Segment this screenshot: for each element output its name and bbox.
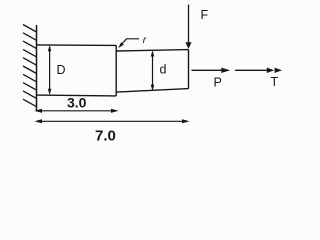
torque T arrow (double head rightward) xyxy=(235,68,282,73)
wall hatching xyxy=(23,25,37,107)
large shaft section (diameter D) outline xyxy=(37,45,117,96)
fillet leader line xyxy=(118,39,139,48)
wall (fixed support) vertical line xyxy=(36,25,38,112)
svg-text:T: T xyxy=(271,75,279,89)
svg-text:r: r xyxy=(143,34,147,46)
dimension D double arrow xyxy=(48,45,52,94)
dimension line 3.0 xyxy=(35,109,119,113)
svg-text:d: d xyxy=(160,63,167,77)
svg-text:7.0: 7.0 xyxy=(95,127,116,144)
svg-text:P: P xyxy=(214,76,222,90)
force F arrow (downward) xyxy=(185,5,191,49)
svg-text:D: D xyxy=(57,63,66,77)
dimension line 7.0 xyxy=(35,119,190,123)
svg-text:3.0: 3.0 xyxy=(67,94,87,110)
force P arrow (rightward) xyxy=(192,68,231,73)
svg-text:F: F xyxy=(201,8,209,22)
dimension d double arrow xyxy=(151,51,155,91)
small shaft section (diameter d) outline xyxy=(116,50,188,93)
